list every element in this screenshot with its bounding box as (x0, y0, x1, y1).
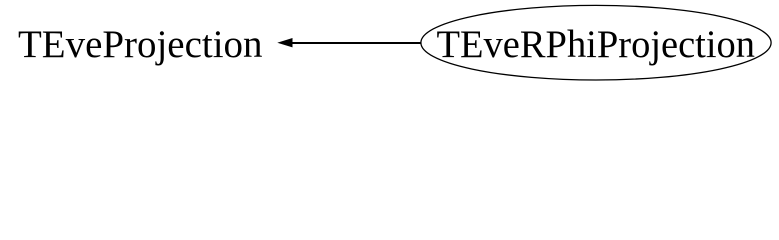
svg-text:TEveProjection: TEveProjection (18, 22, 263, 66)
svg-text:TEveRPhiProjection: TEveRPhiProjection (437, 22, 756, 66)
